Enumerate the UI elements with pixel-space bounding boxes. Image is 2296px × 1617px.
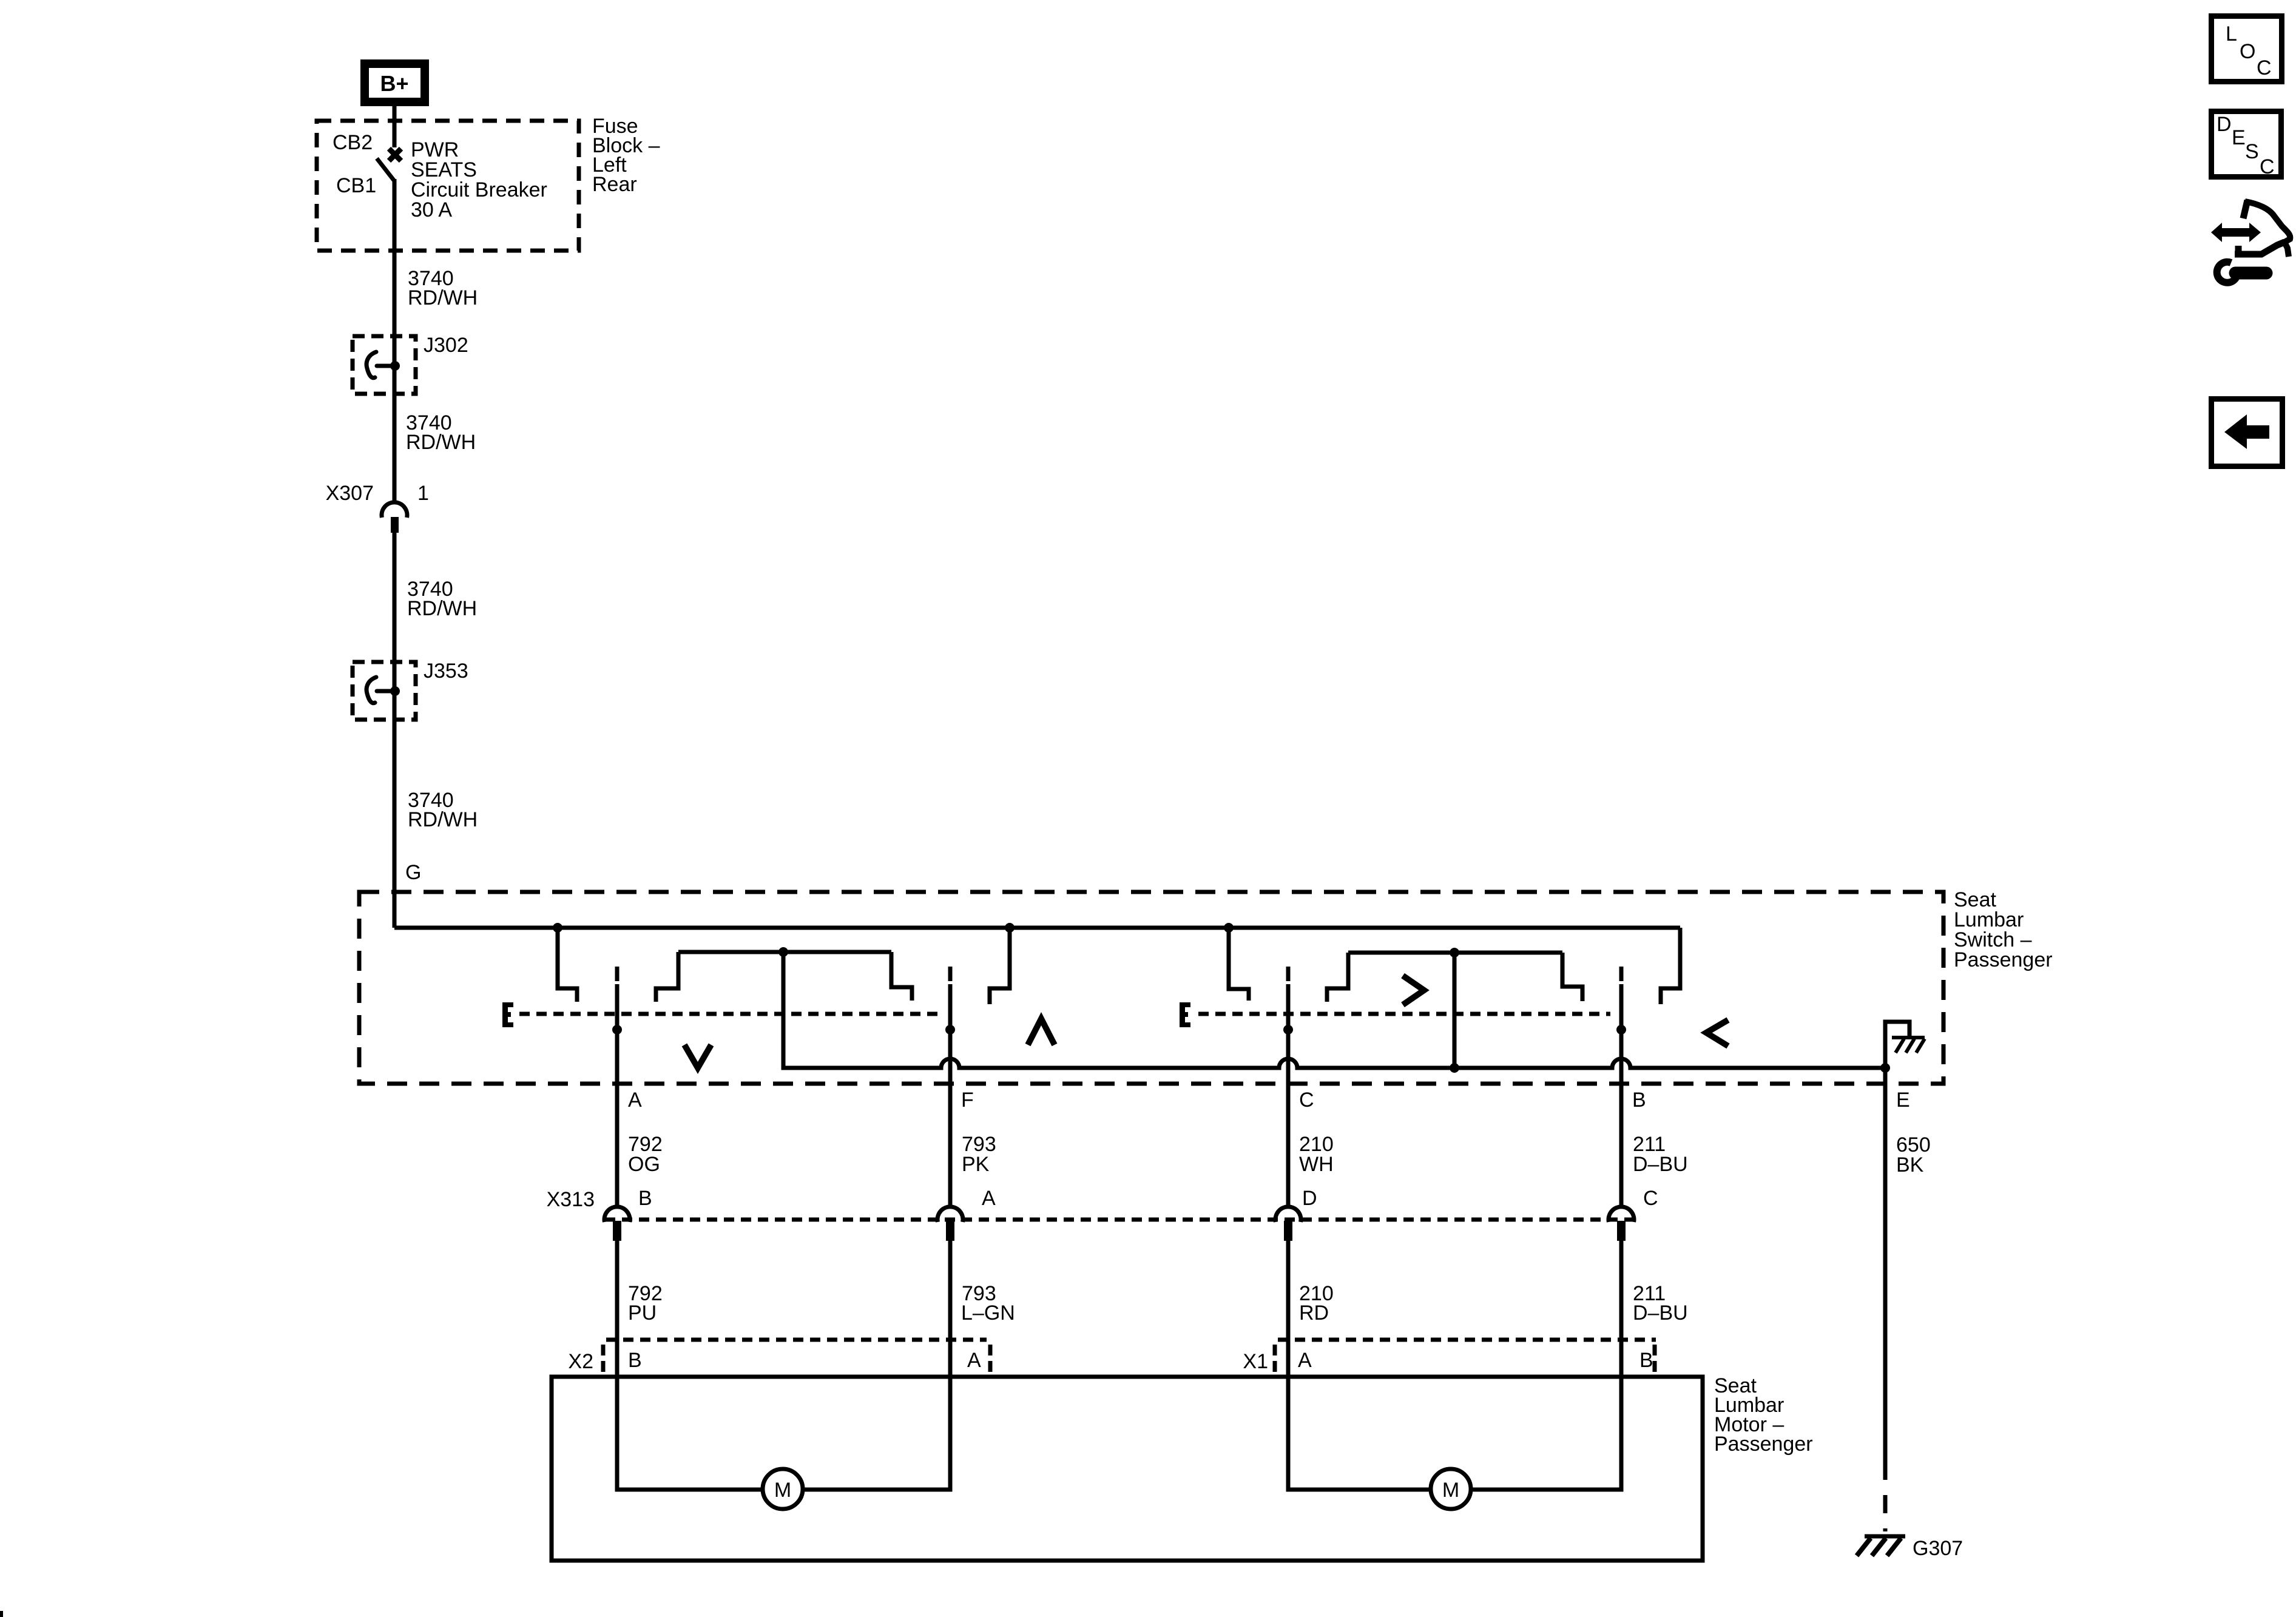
svg-text:D: D bbox=[1302, 1187, 1317, 1210]
arch wire of V switch bbox=[678, 950, 891, 954]
svg-text:30 A: 30 A bbox=[411, 198, 452, 221]
svg-text:S: S bbox=[2245, 140, 2259, 163]
svg-text:E: E bbox=[1896, 1089, 1910, 1112]
glyph arrow up (lumbar inflate) bbox=[1028, 1019, 1055, 1045]
contact finger from bus right end bbox=[1661, 928, 1680, 1004]
seat lumbar motor box bbox=[552, 1377, 1703, 1561]
svg-text:D–BU: D–BU bbox=[1633, 1301, 1688, 1325]
svg-text:B: B bbox=[1632, 1089, 1646, 1112]
svg-text:C: C bbox=[1299, 1089, 1314, 1112]
junction on wire F bbox=[945, 1025, 955, 1035]
contact finger from bus at 2025 bbox=[1229, 928, 1249, 1001]
wire F inside switch bbox=[948, 984, 953, 1206]
glyph arrow left bbox=[1706, 1020, 1728, 1046]
connector X313 arc pin A on wire F bbox=[937, 1207, 963, 1222]
svg-text:RD/WH: RD/WH bbox=[408, 808, 478, 831]
svg-text:RD/WH: RD/WH bbox=[407, 597, 477, 620]
svg-text:B: B bbox=[638, 1187, 652, 1210]
circuit breaker blade bbox=[377, 158, 394, 180]
wire label 3740 RD/WH bbox=[407, 578, 477, 620]
svg-text:B: B bbox=[1639, 1349, 1653, 1372]
movable contact stub wire A (dashed) bbox=[615, 967, 620, 981]
svg-text:M: M bbox=[1442, 1479, 1459, 1502]
contact finger from RIGHT arch right end bbox=[1562, 953, 1582, 1001]
bus wire inside switch bbox=[394, 926, 1680, 930]
junction at J302 bbox=[390, 361, 400, 371]
svg-text:J302: J302 bbox=[424, 334, 468, 357]
wrench jaw bbox=[2217, 262, 2238, 283]
label Fuse Block - Left Rear bbox=[592, 115, 660, 196]
motor M1 bbox=[763, 1469, 803, 1509]
svg-text:BK: BK bbox=[1896, 1153, 1924, 1176]
svg-text:F: F bbox=[961, 1089, 974, 1112]
connector X2 end ticks bbox=[601, 1345, 606, 1372]
wrench handle bbox=[2235, 267, 2266, 280]
splice J302 curl symbol bbox=[366, 352, 392, 378]
connector X307 male pin bbox=[391, 517, 399, 533]
svg-text:E: E bbox=[2232, 126, 2246, 149]
wire label 792 PU bbox=[628, 1282, 663, 1325]
svg-text:A: A bbox=[982, 1187, 996, 1210]
wire label 3740 RD/WH bbox=[406, 411, 476, 454]
lower rail from V arch with hops over F C B bbox=[783, 950, 1885, 1068]
outline shape left limb bbox=[2243, 200, 2247, 218]
double arrow bbox=[2211, 223, 2261, 242]
contact finger to arch of RIGHT switch bbox=[1327, 953, 1348, 1002]
wire E 650 BK to ground bbox=[1883, 1068, 1888, 1462]
common contact line E (right) bbox=[1198, 1012, 1610, 1016]
junction on V arch bbox=[778, 947, 788, 957]
connector X1 end ticks bbox=[1273, 1345, 1277, 1372]
motor M1 wiring bbox=[617, 1487, 763, 1490]
junction rail and RIGHT arch wire bbox=[1450, 1063, 1459, 1073]
wire F X313 to motor bbox=[948, 1241, 953, 1488]
connector X313 arc pin B on wire A bbox=[604, 1207, 630, 1222]
chassis ground symbol inside switch bbox=[1885, 1022, 1909, 1066]
splice J353 curl symbol bbox=[366, 677, 392, 703]
svg-text:L: L bbox=[2226, 22, 2237, 46]
contact finger from bus at 919 bbox=[558, 928, 577, 1002]
switch pin labels A F C B E bbox=[628, 1089, 1910, 1112]
wire label 793 L-GN bbox=[961, 1282, 1015, 1325]
svg-text:RD/WH: RD/WH bbox=[408, 286, 478, 309]
svg-text:C: C bbox=[1643, 1187, 1658, 1210]
movable contact stub wire F (dashed) bbox=[948, 967, 953, 981]
svg-text:A: A bbox=[1298, 1349, 1312, 1372]
wire label 211 D-BU bbox=[1633, 1133, 1688, 1176]
svg-text:B+: B+ bbox=[380, 71, 408, 96]
svg-text:J353: J353 bbox=[424, 660, 468, 683]
junction on bus at RIGHT switch bbox=[1224, 923, 1234, 933]
label E (condensed) bbox=[1180, 1002, 1190, 1027]
icon schematic navigation (double arrow, outline, wrench) bbox=[2211, 200, 2290, 283]
wire label 792 OG bbox=[628, 1133, 663, 1176]
svg-text:D: D bbox=[2217, 113, 2232, 136]
connector X313 line bbox=[605, 1218, 1633, 1222]
connector X313 arc pin C on wire B bbox=[1609, 1207, 1634, 1222]
svg-text:RD/WH: RD/WH bbox=[406, 431, 476, 454]
label Seat Lumbar Motor - Passenger bbox=[1714, 1374, 1813, 1456]
svg-text:CB1: CB1 bbox=[336, 174, 376, 197]
svg-text:Rear: Rear bbox=[592, 173, 637, 196]
outline shape lower zigzag bbox=[2235, 242, 2284, 254]
connector X1 line bbox=[1278, 1338, 1656, 1342]
svg-text:B: B bbox=[628, 1349, 642, 1372]
wire from RIGHT arch down to rail bbox=[1453, 950, 1457, 1068]
motor M2 wiring bbox=[1288, 1487, 1431, 1490]
svg-text:PK: PK bbox=[962, 1153, 990, 1176]
wire J353 to switch bus bbox=[393, 663, 397, 928]
label X2 and pins B A bbox=[568, 1349, 981, 1373]
svg-text:OG: OG bbox=[628, 1153, 660, 1176]
svg-text:C: C bbox=[2257, 56, 2272, 79]
svg-text:PU: PU bbox=[628, 1301, 657, 1325]
contact finger from V arch right end bbox=[891, 952, 912, 1001]
common contact line E (left) bbox=[519, 1012, 942, 1016]
svg-text:M: M bbox=[774, 1479, 791, 1502]
junction rail to ground wire E bbox=[1880, 1063, 1890, 1073]
wire label 210 RD bbox=[1299, 1282, 1334, 1325]
seat lumbar switch box bbox=[359, 892, 1943, 1084]
label X1 and pins A B bbox=[1243, 1349, 1653, 1373]
wire label 650 BK bbox=[1896, 1133, 1931, 1176]
label Seat Lumbar Switch - Passenger bbox=[1954, 888, 2053, 971]
svg-text:G307: G307 bbox=[1913, 1537, 1963, 1560]
contact finger from bus at 1664 bbox=[990, 928, 1010, 1004]
svg-text:X2: X2 bbox=[568, 1350, 593, 1373]
connector X2 line bbox=[606, 1338, 987, 1342]
label E (condensed) bbox=[502, 1002, 513, 1027]
junction at J353 bbox=[390, 686, 400, 696]
wire A X313 to motor bbox=[615, 1241, 620, 1488]
wire J302 to X307 bbox=[393, 337, 397, 502]
wire C X313 to motor bbox=[1286, 1241, 1291, 1488]
svg-text:1: 1 bbox=[417, 482, 429, 505]
junction on wire C bbox=[1283, 1025, 1293, 1035]
svg-text:A: A bbox=[628, 1089, 642, 1112]
wire X307 to J353 bbox=[393, 533, 397, 663]
junction on bus at V switch bbox=[553, 923, 562, 933]
wire C inside switch bbox=[1286, 984, 1291, 1206]
contact finger to arch of V switch bbox=[656, 952, 678, 1002]
icon DESC button bbox=[2209, 109, 2284, 180]
page corner mark bbox=[0, 1611, 3, 1617]
movable contact stub wire C (dashed) bbox=[1286, 967, 1291, 981]
glyph arrow right bbox=[1403, 976, 1424, 1005]
wire label 211 D-BU bbox=[1633, 1282, 1688, 1325]
connector X307 terminal 1 (female arc) bbox=[382, 502, 407, 518]
junction on RIGHT arch bbox=[1450, 948, 1459, 957]
svg-text:G: G bbox=[405, 861, 421, 884]
splice J302 box bbox=[353, 336, 416, 394]
icon LOC button bbox=[2209, 13, 2284, 84]
wire B+ to circuit breaker bbox=[393, 106, 397, 147]
ground symbol G307 bbox=[1857, 1536, 1905, 1556]
svg-text:X1: X1 bbox=[1243, 1350, 1268, 1373]
svg-text:D–BU: D–BU bbox=[1633, 1153, 1688, 1176]
svg-text:O: O bbox=[2240, 40, 2255, 63]
movable contact stub wire B (dashed) bbox=[1619, 967, 1624, 981]
svg-text:CB2: CB2 bbox=[333, 131, 373, 154]
connector X313 arc pin D on wire C bbox=[1275, 1207, 1301, 1222]
wire label 210 WH bbox=[1299, 1133, 1334, 1176]
svg-text:Passenger: Passenger bbox=[1714, 1433, 1813, 1456]
wire B X313 to motor bbox=[1619, 1241, 1624, 1488]
svg-text:X307: X307 bbox=[326, 482, 374, 505]
wire breaker to J302 bbox=[393, 179, 397, 337]
arch wire of RIGHT switch bbox=[1348, 951, 1562, 955]
wire A inside switch bbox=[615, 984, 620, 1206]
wire label 3740 RD/WH bbox=[408, 267, 478, 309]
junction on wire A bbox=[612, 1025, 622, 1035]
svg-text:Passenger: Passenger bbox=[1954, 948, 2053, 971]
motor M2 bbox=[1431, 1469, 1471, 1509]
wire label 793 PK bbox=[962, 1133, 996, 1176]
svg-text:RD: RD bbox=[1299, 1301, 1329, 1325]
icon back arrow button bbox=[2209, 396, 2285, 469]
svg-text:A: A bbox=[967, 1349, 981, 1372]
outline shape roof and right limb bbox=[2245, 201, 2290, 257]
glyph arrow down (lumbar deflate) bbox=[684, 1045, 711, 1068]
junction on wire B bbox=[1616, 1025, 1626, 1035]
svg-text:C: C bbox=[2260, 155, 2275, 178]
svg-text:X313: X313 bbox=[547, 1188, 595, 1211]
wire B inside switch bbox=[1619, 984, 1624, 1206]
fuse block box (Fuse Block - Left Rear) bbox=[317, 121, 579, 251]
svg-text:WH: WH bbox=[1299, 1153, 1334, 1176]
power symbol B+ bbox=[360, 59, 429, 106]
junction on bus at UP switch bbox=[1005, 923, 1015, 933]
label PWR SEATS Circuit Breaker 30 A bbox=[411, 138, 547, 221]
wire label 3740 RD/WH bbox=[408, 789, 478, 831]
splice J353 box bbox=[353, 662, 416, 720]
circuit breaker CB1/CB2 fixed contact X bbox=[389, 149, 401, 161]
svg-text:L–GN: L–GN bbox=[961, 1301, 1015, 1325]
